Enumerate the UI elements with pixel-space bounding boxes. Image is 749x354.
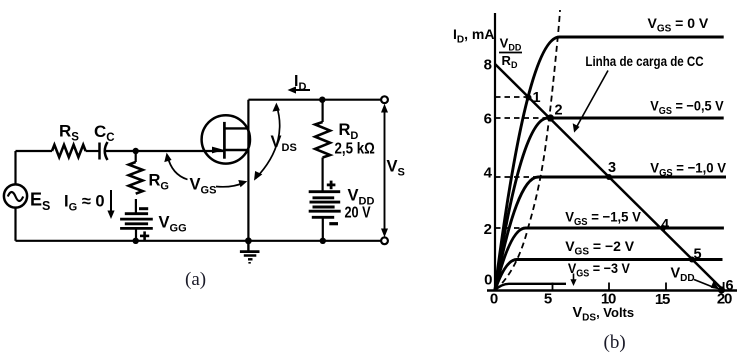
svg-text:VDD: VDD [671,266,695,285]
svg-text:VS: VS [387,158,405,179]
svg-text:2: 2 [554,103,562,119]
svg-text:RD: RD [339,121,359,142]
svg-text:3: 3 [608,160,616,176]
svg-text:4: 4 [661,217,669,233]
svg-text:2,5 kΩ: 2,5 kΩ [335,141,375,158]
svg-text:1: 1 [532,90,540,106]
svg-text:6: 6 [725,278,733,294]
svg-text:VDS: VDS [271,133,297,154]
svg-text:VGS = −1,5 V: VGS = −1,5 V [565,209,641,228]
svg-text:VGS: VGS [190,176,217,197]
svg-text:20 V: 20 V [345,204,372,221]
svg-text:2: 2 [484,221,492,238]
svg-text:5: 5 [693,247,701,263]
svg-text:0: 0 [484,272,492,289]
svg-text:4: 4 [484,165,493,182]
svg-text:RD: RD [502,53,518,70]
svg-text:RS: RS [59,122,79,144]
svg-text:(a): (a) [185,269,206,290]
svg-text:VGS = −0,5 V: VGS = −0,5 V [650,98,723,117]
svg-text:15: 15 [655,291,670,308]
svg-text:ID, mA: ID, mA [453,26,494,46]
svg-text:8: 8 [484,57,492,74]
svg-text:ES: ES [30,190,50,214]
svg-text:VDD: VDD [500,36,522,53]
svg-text:VGS = 0 V: VGS = 0 V [648,15,709,35]
svg-text:VGS = −3 V: VGS = −3 V [568,260,630,279]
svg-text:IG ≈ 0: IG ≈ 0 [64,193,105,214]
svg-text:Linha de carga de CC: Linha de carga de CC [585,54,703,69]
svg-text:VGG: VGG [159,214,187,235]
svg-text:5: 5 [544,291,552,308]
svg-text:RG: RG [149,172,169,193]
svg-text:VGS = −2 V: VGS = −2 V [565,238,635,258]
svg-text:6: 6 [484,111,492,128]
svg-text:CC: CC [94,122,115,144]
svg-text:VDS, Volts: VDS, Volts [573,305,635,324]
svg-text:(b): (b) [604,332,626,353]
svg-text:0: 0 [490,291,498,308]
